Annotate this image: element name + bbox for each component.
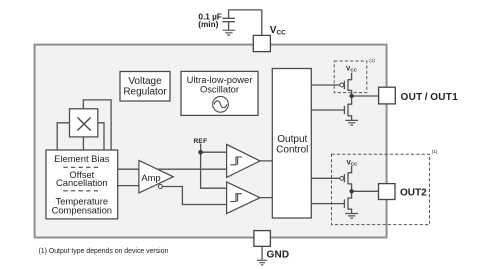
- svg-text:Compensation: Compensation: [52, 205, 112, 216]
- svg-text:Element Bias: Element Bias: [54, 153, 110, 164]
- svg-text:Output: Output: [277, 134, 307, 145]
- svg-text:Oscillator: Oscillator: [200, 84, 239, 95]
- svg-text:(min): (min): [198, 20, 218, 29]
- svg-text:(1): (1): [432, 149, 438, 154]
- svg-text:(1): (1): [369, 58, 375, 63]
- svg-text:OUT / OUT1: OUT / OUT1: [401, 92, 459, 103]
- svg-text:GND: GND: [267, 249, 290, 260]
- svg-text:Control: Control: [276, 144, 308, 155]
- svg-text:OUT2: OUT2: [400, 188, 427, 199]
- svg-text:Cancellation: Cancellation: [56, 177, 108, 188]
- svg-text:REF: REF: [193, 138, 207, 145]
- svg-text:VCC: VCC: [347, 159, 359, 166]
- svg-text:VCC: VCC: [270, 25, 286, 37]
- svg-text:Amp: Amp: [141, 172, 160, 183]
- svg-text:Regulator: Regulator: [123, 86, 167, 97]
- svg-text:VCC: VCC: [346, 66, 358, 73]
- svg-text:(1) Output type depends on dev: (1) Output type depends on device versio…: [39, 248, 169, 255]
